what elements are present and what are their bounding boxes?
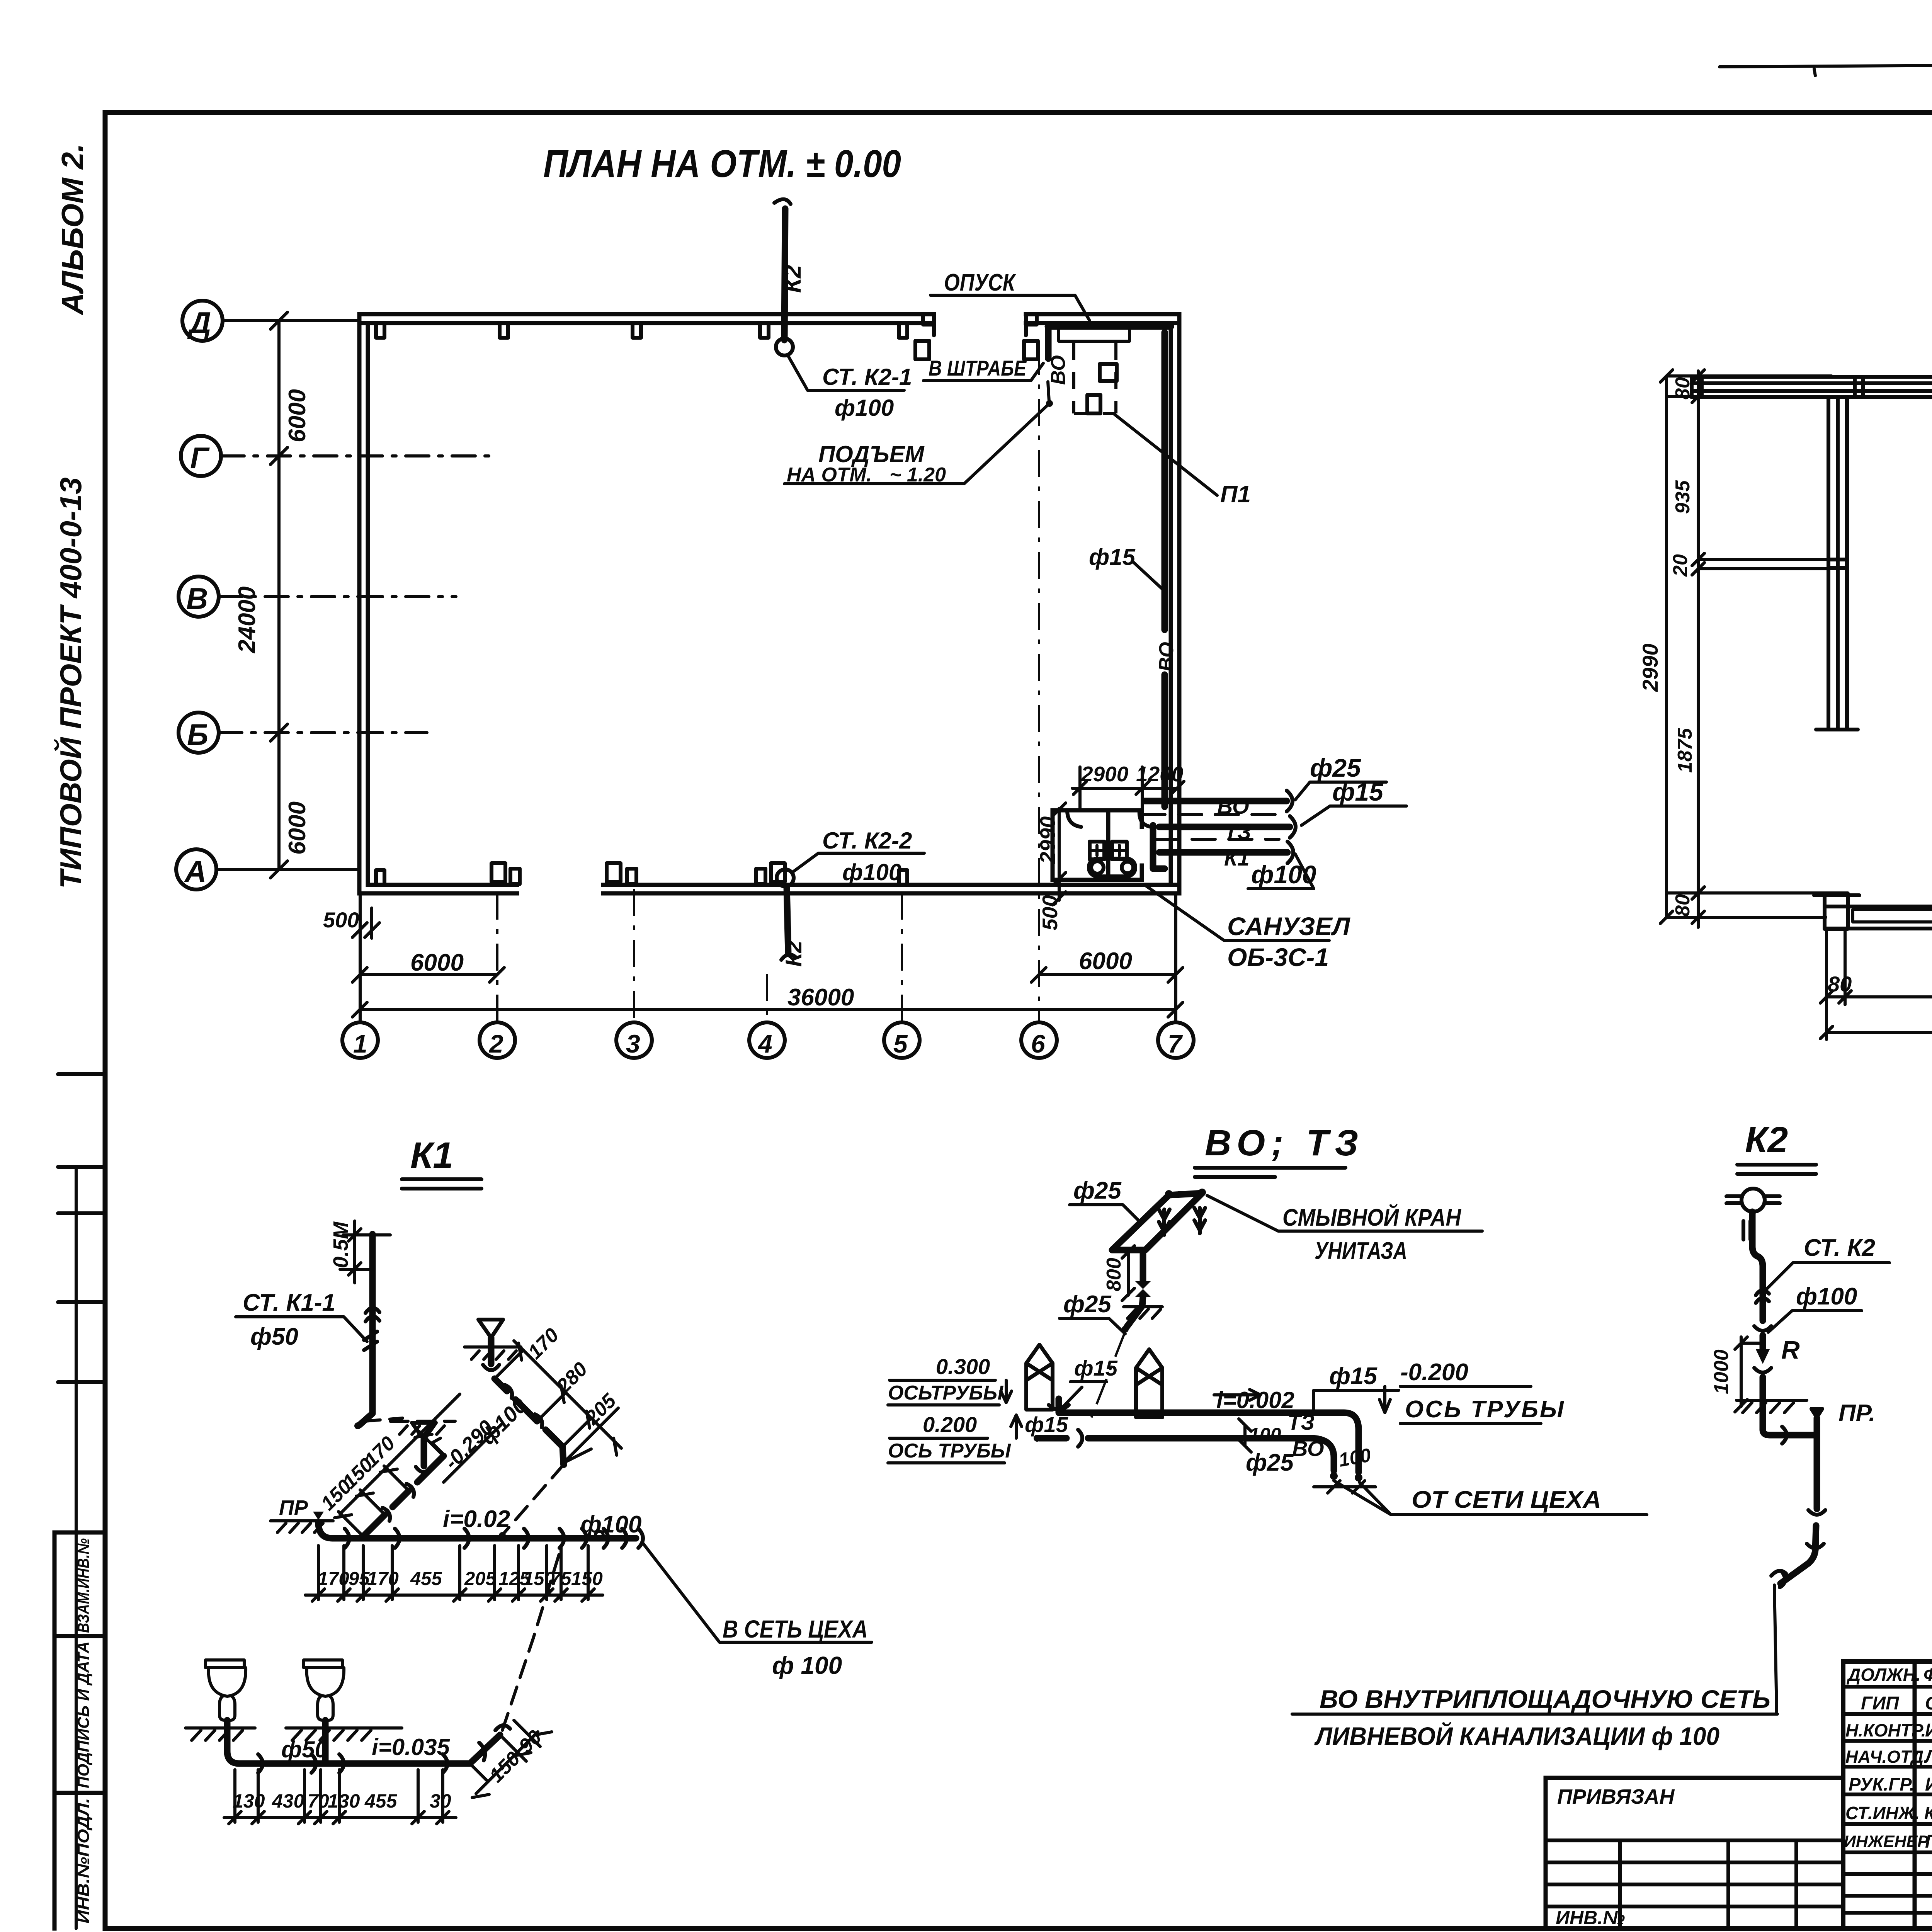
T3 pipe horizontal	[1059, 1399, 1286, 1413]
candle symbol right	[1136, 1349, 1162, 1417]
VO vertical pipe inside right wall	[1162, 332, 1168, 807]
svg-text:СТ. К1-1: СТ. К1-1	[243, 1289, 335, 1316]
sink drain pipes	[227, 1720, 325, 1764]
K2 scheme title	[1710, 1119, 1889, 1713]
center axis dashline left of plan	[1697, 378, 1699, 906]
K1 pipe inside sanuzel	[1153, 825, 1165, 869]
leader to bottom text	[1774, 1585, 1777, 1713]
svg-text:2: 2	[488, 1029, 503, 1058]
shtraba thick line along top-right wall	[1048, 327, 1171, 359]
svg-text:935: 935	[1672, 480, 1694, 514]
building top wall (two segments with door opening)	[359, 314, 1179, 323]
svg-text:П1: П1	[1220, 481, 1251, 508]
svg-text:ТЗ: ТЗ	[1287, 1410, 1315, 1434]
svg-text:430: 430	[272, 1790, 304, 1812]
V set tseha leader	[643, 1543, 872, 1642]
T3 VO right bends	[1286, 1413, 1359, 1472]
dim 36000 row	[352, 1002, 1183, 1017]
svg-text:ПР: ПР	[279, 1496, 308, 1519]
svg-text:ф50: ф50	[281, 1736, 328, 1762]
svg-text:ф50: ф50	[250, 1323, 298, 1350]
dashed connector to main	[504, 1464, 564, 1533]
diagonal dims 150 90	[476, 1732, 538, 1794]
toilets	[1090, 842, 1104, 859]
svg-text:i=0.035: i=0.035	[372, 1734, 450, 1760]
svg-text:ПРИВЯЗАН: ПРИВЯЗАН	[1557, 1785, 1675, 1808]
svg-text:130: 130	[328, 1790, 360, 1812]
svg-text:2900: 2900	[1081, 762, 1129, 786]
svg-text:1875: 1875	[1674, 728, 1696, 773]
lower dims	[235, 1770, 443, 1822]
main lower pipe	[240, 1735, 500, 1764]
svg-text:ВО: ВО	[1292, 1436, 1324, 1461]
Podjem leader and text	[784, 403, 1049, 484]
svg-text:150: 150	[571, 1568, 603, 1589]
flush arrows below dots	[1159, 1209, 1170, 1235]
block bottom dims	[1827, 904, 1932, 1039]
svg-text:6000: 6000	[1079, 948, 1132, 975]
main plan title	[176, 142, 1406, 1058]
building right wall	[1171, 314, 1179, 893]
svg-text:ТЗ: ТЗ	[1224, 820, 1251, 844]
svg-text:ПОДЪЕМ: ПОДЪЕМ	[818, 441, 925, 467]
svg-text:80: 80	[1828, 972, 1852, 996]
svg-text:70: 70	[308, 1790, 329, 1812]
svg-text:2990: 2990	[1638, 643, 1662, 692]
svg-text:ВО: ВО	[1047, 355, 1070, 385]
svg-text:80: 80	[1672, 377, 1694, 400]
svg-text:СТ. К2-1: СТ. К2-1	[822, 364, 912, 390]
K2 riser pipe	[1752, 1212, 1763, 1321]
svg-text:170: 170	[318, 1568, 349, 1589]
PR triangle	[1811, 1409, 1822, 1417]
block left dims	[1697, 371, 1700, 927]
svg-text:ф100: ф100	[580, 1511, 641, 1538]
svg-text:А: А	[184, 854, 206, 888]
left margin album text	[54, 143, 105, 1929]
VO;T3 scheme title	[888, 1122, 1777, 1750]
svg-text:Б: Б	[187, 718, 208, 752]
svg-text:К2: К2	[781, 940, 806, 967]
svg-text:ф15: ф15	[1074, 1356, 1118, 1380]
svg-text:ПЛАН НА ОТМ. ± 0.00: ПЛАН НА ОТМ. ± 0.00	[543, 142, 901, 185]
upper drain trap	[478, 1320, 503, 1338]
svg-text:ф25: ф25	[1063, 1291, 1112, 1318]
dim ladder 1	[340, 1394, 460, 1514]
funnel connection	[1743, 1221, 1750, 1240]
title block outer	[1546, 1662, 1932, 1932]
sink 2	[304, 1660, 342, 1668]
svg-text:24000: 24000	[234, 587, 260, 653]
left vertical dim chain	[277, 321, 281, 869]
svg-text:ПОДПИСЬ И ДАТА: ПОДПИСЬ И ДАТА	[74, 1641, 92, 1788]
svg-text:6000: 6000	[284, 389, 311, 442]
svg-text:205: 205	[464, 1568, 497, 1589]
leader to St.K2-1	[787, 355, 904, 390]
dash-dot down	[1090, 1332, 1125, 1422]
left sidebar stamp boxes	[54, 1532, 105, 1929]
svg-text:ВО ВНУТРИПЛОЩАДОЧНУЮ СЕТЬ: ВО ВНУТРИПЛОЩАДОЧНУЮ СЕТЬ	[1320, 1685, 1770, 1713]
svg-text:7: 7	[1168, 1029, 1183, 1058]
row axis circles	[182, 301, 223, 341]
svg-text:ф100: ф100	[842, 859, 901, 885]
block plan title	[1638, 196, 1932, 1039]
svg-text:6000: 6000	[410, 949, 464, 976]
K1 riser	[359, 1234, 372, 1425]
sink 1	[206, 1660, 244, 1668]
pipes exiting sanuzel right	[1145, 798, 1287, 804]
svg-text:ИСАКОВА: ИСАКОВА	[1925, 1720, 1932, 1741]
svg-text:ГИП: ГИП	[1861, 1693, 1900, 1714]
vertical down from PR	[1781, 1418, 1817, 1583]
svg-text:К2: К2	[1745, 1119, 1788, 1160]
svg-text:СМЫВНОЙ КРАН: СМЫВНОЙ КРАН	[1282, 1204, 1461, 1231]
svg-text:455: 455	[410, 1568, 442, 1589]
svg-text:ИНВ.№: ИНВ.№	[1556, 1907, 1625, 1929]
main line dims	[318, 1546, 588, 1600]
top door jambs	[923, 314, 1037, 335]
column axis circles	[342, 1022, 378, 1058]
svg-text:СТ. К2: СТ. К2	[1804, 1235, 1875, 1261]
block left wall	[1816, 397, 1858, 730]
dim ladder 2	[514, 1341, 621, 1448]
svg-text:130: 130	[233, 1790, 265, 1812]
svg-text:1: 1	[353, 1029, 367, 1058]
bottom wall tabs	[376, 870, 907, 885]
left sidebar ticks	[58, 1074, 105, 1382]
svg-text:ВЗАМ.ИНВ.№: ВЗАМ.ИНВ.№	[74, 1538, 92, 1633]
svg-text:5: 5	[893, 1029, 908, 1058]
svg-text:80: 80	[1672, 894, 1694, 917]
svg-text:0.300: 0.300	[936, 1354, 990, 1379]
svg-text:R: R	[1781, 1335, 1800, 1364]
svg-text:ИНВ.№ПОДЛ.: ИНВ.№ПОДЛ.	[74, 1798, 92, 1923]
pipe down from tank with valve	[1127, 1250, 1143, 1327]
svg-text:ДОЛЖН.: ДОЛЖН.	[1846, 1665, 1921, 1685]
svg-text:ОСЬТРУБЫ: ОСЬТРУБЫ	[888, 1382, 1003, 1404]
row axis lines	[223, 319, 359, 322]
svg-text:2990: 2990	[1036, 816, 1060, 864]
St K2-2 riser at axis 4	[777, 869, 794, 886]
ground line	[1736, 1399, 1807, 1402]
dashed connector up	[502, 1544, 562, 1730]
ground hatches	[185, 1726, 402, 1730]
svg-text:i=0.02: i=0.02	[443, 1506, 510, 1532]
svg-text:3: 3	[626, 1029, 640, 1058]
svg-text:Г: Г	[190, 441, 210, 475]
svg-text:КАЛУГИНА: КАЛУГИНА	[1924, 1803, 1932, 1823]
svg-text:ОБ-3С-1: ОБ-3С-1	[1227, 943, 1329, 971]
svg-text:36000: 36000	[787, 984, 854, 1011]
personnel table rows	[1843, 1687, 1932, 1913]
svg-text:170: 170	[367, 1568, 399, 1589]
svg-text:ИНЖЕНЕР: ИНЖЕНЕР	[1844, 1832, 1929, 1851]
personnel table columns	[1915, 1662, 1932, 1929]
svg-text:~ 1.20: ~ 1.20	[889, 464, 946, 486]
svg-text:ф25: ф25	[1073, 1177, 1122, 1204]
svg-text:0.200: 0.200	[923, 1412, 977, 1437]
svg-text:ТИПОВОЙ ПРОЕКТ 400-0-13: ТИПОВОЙ ПРОЕКТ 400-0-13	[54, 477, 88, 889]
svg-text:0.5М: 0.5М	[329, 1221, 352, 1268]
middle drain trap	[412, 1423, 436, 1440]
svg-text:ЛИВНЕВОЙ КАНАЛИЗАЦИИ ф 100: ЛИВНЕВОЙ КАНАЛИЗАЦИИ ф 100	[1314, 1721, 1719, 1750]
svg-text:30: 30	[430, 1790, 451, 1812]
building bottom wall segments	[359, 885, 1179, 893]
svg-text:ИСЯКОВА: ИСЯКОВА	[1925, 1774, 1932, 1795]
sheet outer scan edge top	[1719, 64, 1932, 68]
svg-text:УНИТАЗА: УНИТАЗА	[1315, 1238, 1407, 1264]
svg-text:6: 6	[1031, 1029, 1046, 1058]
svg-text:СОРОКИН: СОРОКИН	[1925, 1693, 1932, 1714]
svg-text:В СЕТЬ ЦЕХА: В СЕТЬ ЦЕХА	[723, 1615, 868, 1643]
joint arcs on horizontal	[1782, 1427, 1787, 1444]
svg-text:ПР.: ПР.	[1838, 1400, 1875, 1427]
svg-text:К2: К2	[779, 265, 806, 293]
svg-text:НА ОТМ.: НА ОТМ.	[787, 464, 872, 486]
svg-text:НАЧ.ОТД.: НАЧ.ОТД.	[1845, 1747, 1929, 1767]
top wall column tabs	[376, 323, 907, 338]
svg-text:ф100: ф100	[1796, 1283, 1857, 1310]
svg-text:500: 500	[323, 908, 359, 932]
svg-text:95: 95	[349, 1568, 370, 1589]
VO pipe horizontal	[1039, 1435, 1310, 1442]
svg-text:АЛЬБОМ 2.: АЛЬБОМ 2.	[55, 143, 90, 316]
K1 scheme title	[185, 1135, 872, 1824]
svg-text:ГРУБА: ГРУБА	[1925, 1832, 1932, 1852]
sanuzel cabin	[1053, 810, 1142, 880]
svg-text:ф 100: ф 100	[772, 1651, 842, 1679]
column axis lines	[359, 893, 362, 1022]
svg-text:6000: 6000	[284, 801, 311, 855]
dim 0.5m	[340, 1221, 372, 1283]
svg-text:ОСЬ ТРУБЫ: ОСЬ ТРУБЫ	[888, 1440, 1011, 1462]
riser break squiggle	[366, 1308, 379, 1321]
flush tank parallelogram	[1112, 1193, 1202, 1250]
roof funnel symbol	[1742, 1189, 1765, 1212]
K1 thick diagonal branch	[363, 1456, 444, 1536]
svg-text:РУК.ГР.: РУК.ГР.	[1849, 1774, 1915, 1794]
svg-text:ф15: ф15	[1332, 777, 1384, 806]
svg-text:К1: К1	[410, 1135, 453, 1176]
svg-text:20: 20	[1669, 554, 1692, 577]
svg-text:ф25: ф25	[1246, 1449, 1294, 1476]
svg-text:ОТ СЕТИ ЦЕХА: ОТ СЕТИ ЦЕХА	[1412, 1486, 1601, 1513]
svg-text:К1: К1	[1224, 846, 1250, 870]
svg-text:1000: 1000	[1710, 1349, 1733, 1394]
K2-1 riser at top	[784, 209, 785, 340]
block bottom wall	[1826, 906, 1932, 929]
svg-text:СТ. К2-2: СТ. К2-2	[822, 828, 912, 854]
svg-text:СТ.ИНЖ.: СТ.ИНЖ.	[1845, 1803, 1920, 1823]
building left wall	[359, 314, 368, 893]
thick diagonal going down-right	[495, 1379, 563, 1463]
candle symbol left	[1026, 1345, 1053, 1410]
left sidebar thin column	[75, 1167, 78, 1929]
svg-text:Д: Д	[187, 306, 211, 340]
svg-text:В ШТРАБЕ: В ШТРАБЕ	[929, 356, 1027, 380]
svg-text:455: 455	[364, 1790, 398, 1812]
svg-text:ВО: ВО	[1155, 642, 1178, 672]
P1 ventilation cabin	[1059, 327, 1129, 341]
svg-text:ЛОБЯС: ЛОБЯС	[1924, 1747, 1932, 1767]
svg-text:ф15: ф15	[1089, 544, 1136, 570]
svg-text:САНУЗЕЛ: САНУЗЕЛ	[1227, 912, 1350, 940]
svg-text:800: 800	[1103, 1258, 1125, 1291]
svg-text:ВО: ВО	[1217, 794, 1249, 818]
svg-text:ф100: ф100	[835, 395, 894, 421]
svg-text:ф15: ф15	[1329, 1363, 1378, 1389]
svg-text:4: 4	[757, 1029, 772, 1058]
svg-text:Н.КОНТР.: Н.КОНТР.	[1845, 1720, 1926, 1740]
block top wall	[1692, 377, 1932, 397]
dashed from riser foot	[365, 1418, 403, 1421]
svg-text:В: В	[186, 582, 208, 616]
main K1 horizontal collector	[318, 1522, 636, 1538]
svg-text:ОСЬ ТРУБЫ: ОСЬ ТРУБЫ	[1405, 1396, 1565, 1423]
svg-text:ФАМИЛИЯ: ФАМИЛИЯ	[1923, 1665, 1932, 1685]
dim 6000 row	[360, 973, 1176, 976]
privyazan table	[1546, 1778, 1843, 1929]
svg-text:ОПУСК: ОПУСК	[944, 269, 1016, 296]
svg-text:100: 100	[1249, 1424, 1281, 1446]
svg-text:ВО; ТЗ: ВО; ТЗ	[1205, 1122, 1364, 1163]
svg-text:-0.200: -0.200	[1400, 1359, 1468, 1386]
